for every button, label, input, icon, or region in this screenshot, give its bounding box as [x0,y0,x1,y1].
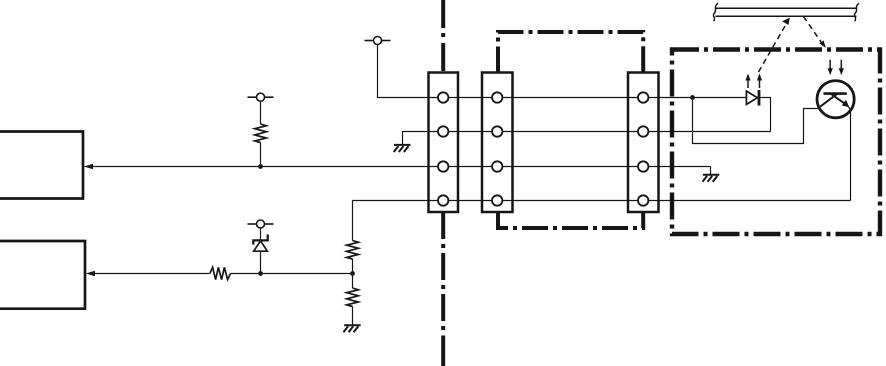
cable assembly boundary (dash-dot, top) [498,32,643,73]
LED emission arrow 2 [757,74,762,89]
node junction zener/lower line [258,271,263,276]
wire row3 drop to sensor ground [710,167,712,175]
terminal T2 (above resistor R1) [248,93,274,101]
wire R1 to row3 [260,143,262,167]
cable assembly boundary (dash-dot, bottom) [498,212,643,228]
node junction divider tap [350,271,355,276]
sensor module boundary (dash-dot box, right) [672,50,880,235]
chassis boundary dash-dot line (above connector J1) [441,0,445,73]
wire row4 corner down to R3 [352,201,354,241]
light ray emitted (dashed arrow up) [759,18,790,72]
wire row3 from connector J1 pin3 to box1 [91,166,711,168]
connector J2 pins [492,92,502,205]
ground (below R4) [343,325,360,332]
block box2 (left lower) [0,241,85,309]
ground (left of connector J1, row2) [394,145,411,152]
ground (sensor module) [703,175,720,182]
wire phototransistor emitter to row4 [848,106,850,200]
wire zener to lower line [260,251,262,273]
reflective media bar (top right) [713,3,859,21]
phototransistor Q1 [817,81,854,118]
wire R4 to ground [352,307,354,326]
resistor R2 (horizontal, lower line) [210,267,231,279]
light reception arrow 1 [828,60,833,75]
signal arrowhead into box1 [84,164,93,170]
resistor R3 (vertical, upper of divider) [347,241,359,260]
resistor R4 (vertical, lower of divider) [347,288,359,307]
light ray reflected (dashed arrow down) [804,17,826,49]
wire row4 [353,200,851,202]
wire R3 to R4 [352,259,354,288]
resistor R1 (vertical, x=260) [255,124,267,143]
wire row2 [403,132,771,145]
terminal T3 (above zener) [248,220,274,228]
wire row1 junction to phototransistor collector [693,98,820,144]
wire lower analog line right part [231,273,353,275]
node junction row3/R1 [258,164,263,169]
light reception arrow 2 [839,60,844,75]
wire T2 to R1 [260,101,262,124]
connector J1 pins [438,92,448,205]
connector J2 [482,73,513,213]
terminal T1 (top, feeds row1) [365,37,391,45]
wire T3 to zener [260,228,262,241]
signal arrowhead into box2 [86,271,95,277]
wire row1 LED cathode to corner [759,98,771,132]
connector J3 pins [638,92,648,205]
block box1 (left upper) [0,132,83,199]
wire from T1 down and right to row1 [378,45,747,98]
wire lower analog line to box2 [93,273,210,275]
chassis boundary dash-dot line (below connector J1) [441,212,445,330]
node junction row1 (sensor board) [690,95,695,100]
zener diode D2 [253,234,267,251]
LED D1 [746,90,759,106]
connector J1 [429,73,459,213]
LED emission arrow 1 [745,74,750,89]
connector J3 [628,73,659,213]
